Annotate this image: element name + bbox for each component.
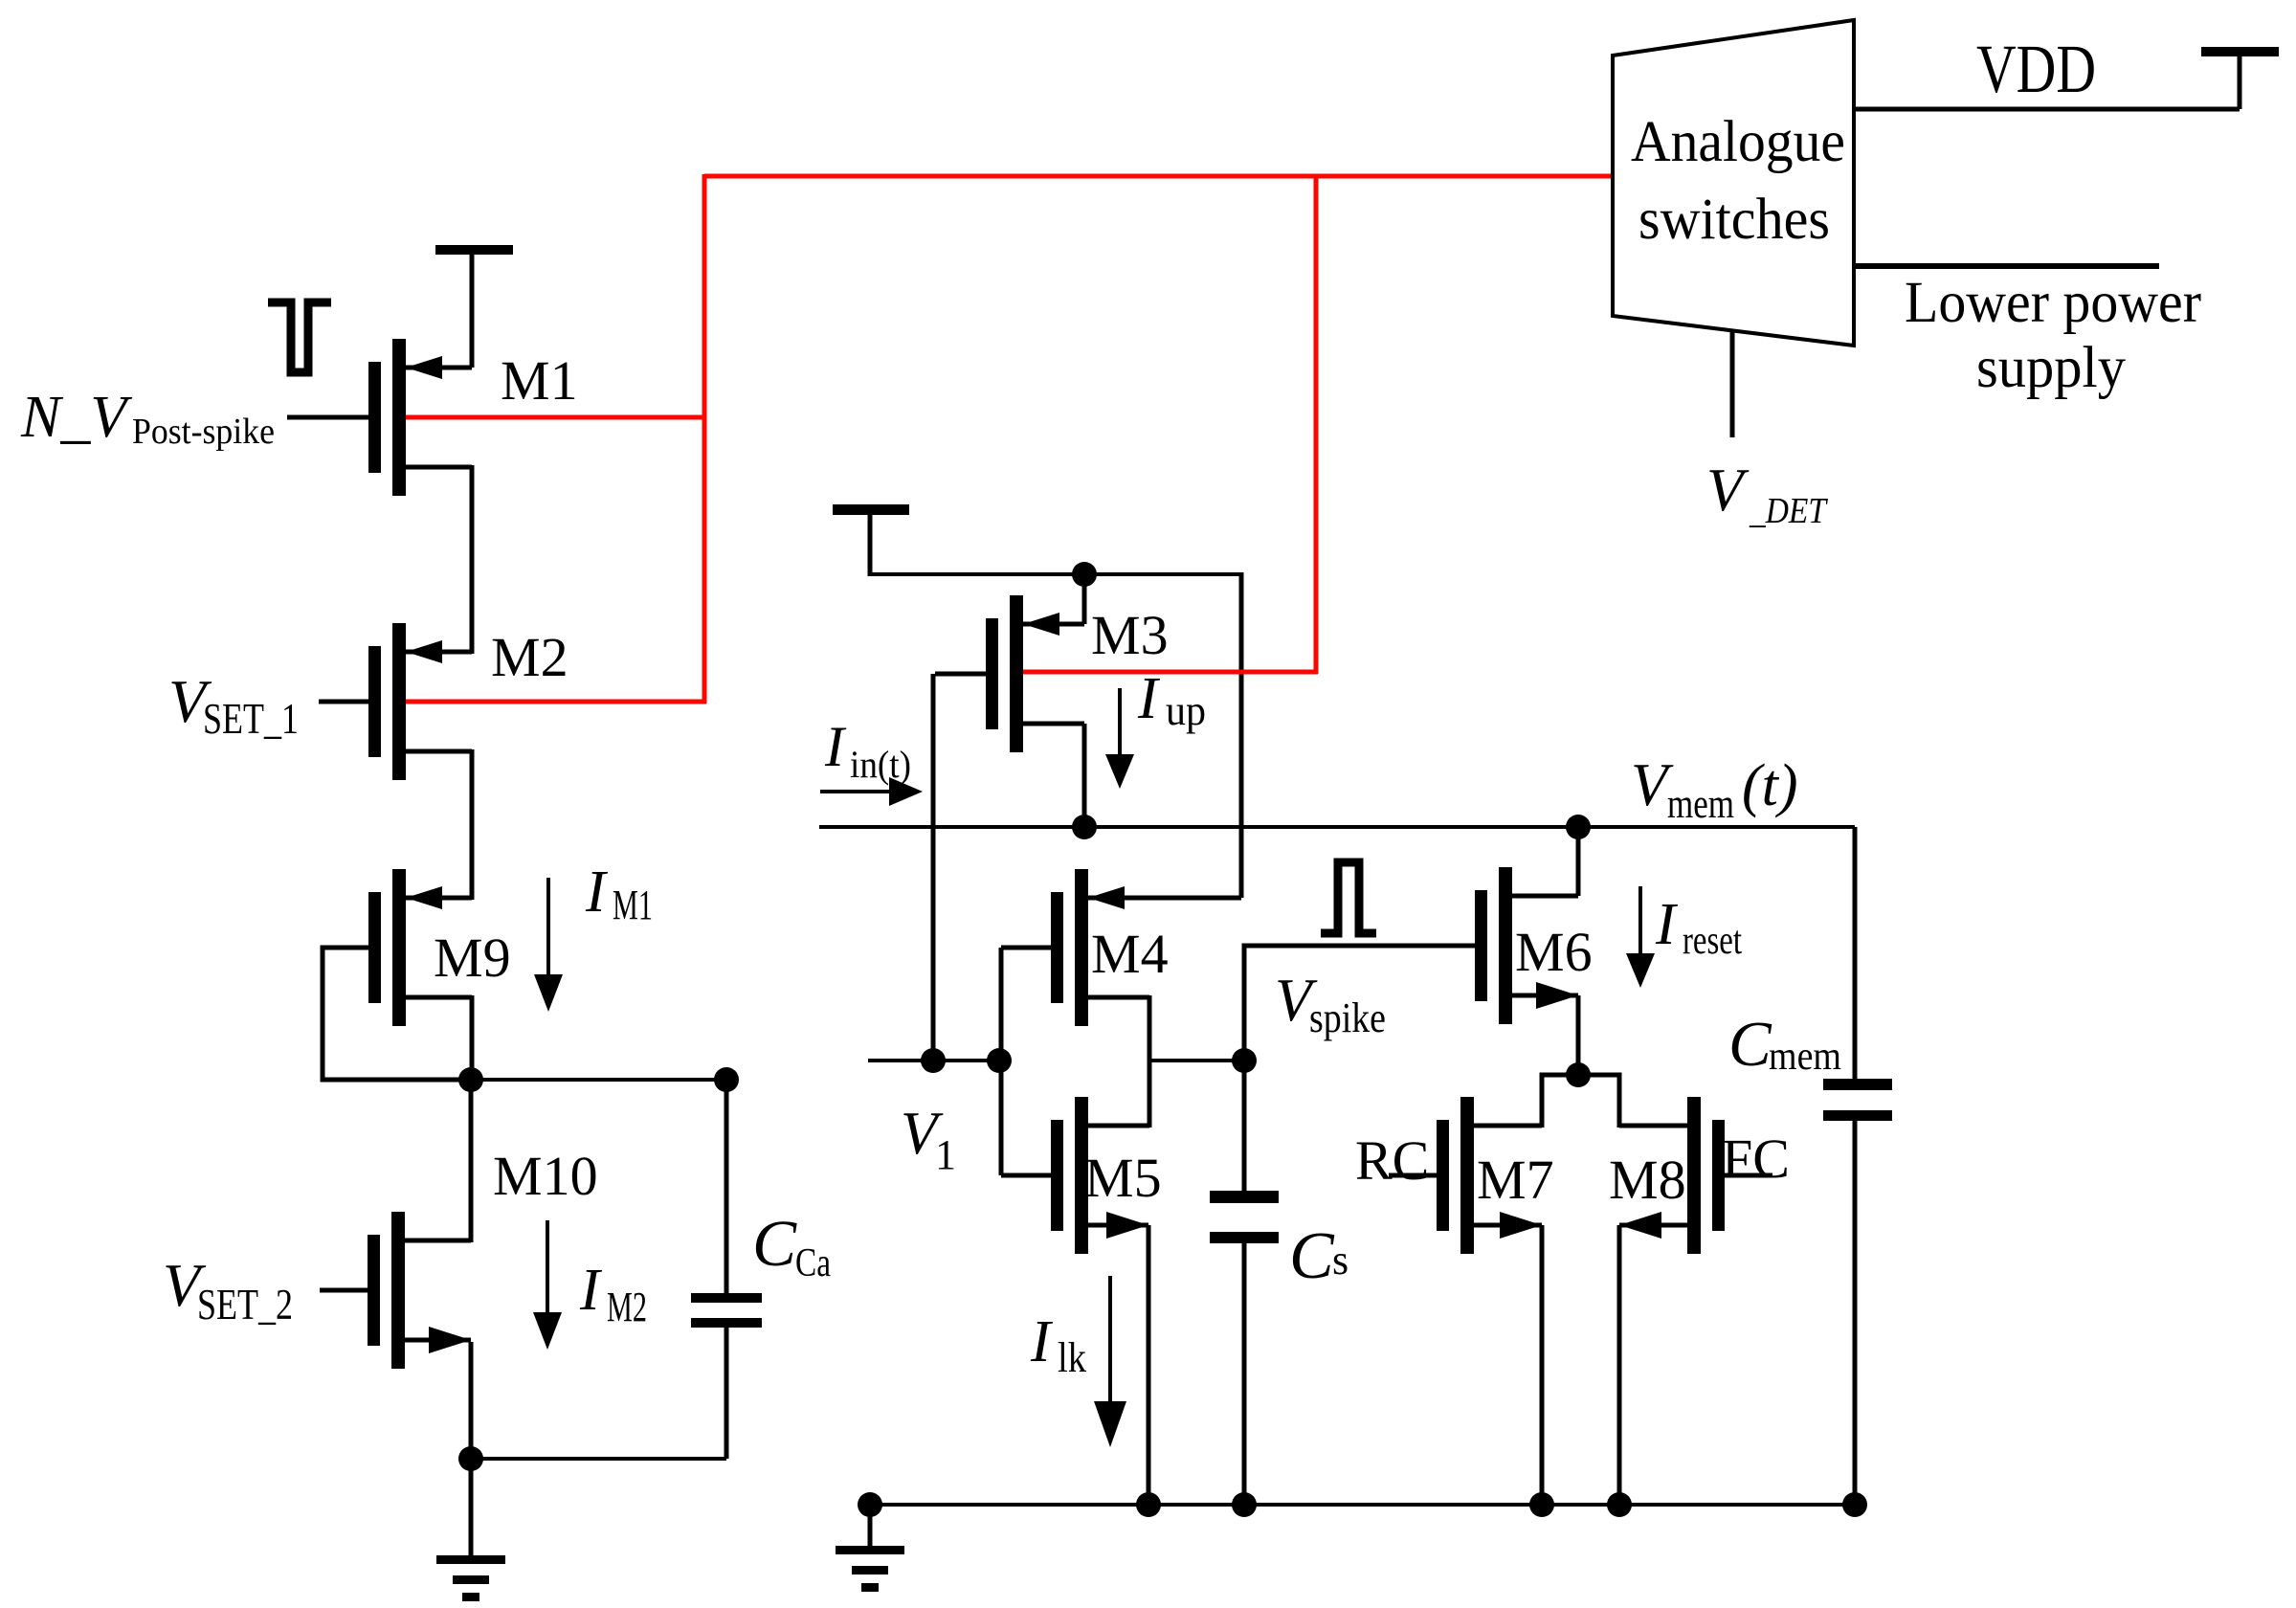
wire V1 line <box>868 1059 999 1062</box>
wire M10 source to ground node <box>469 1342 474 1459</box>
wire M4 source up to supply rail <box>1239 572 1244 898</box>
svg-text:_DET: _DET <box>1749 491 1828 531</box>
svg-text:reset: reset <box>1683 919 1742 963</box>
transistor M10 <box>368 1235 380 1346</box>
node M10 source junction <box>458 1446 483 1471</box>
wire M4/M5 common gate <box>999 948 1004 1175</box>
svg-text:M2: M2 <box>491 626 568 688</box>
capacitor C_Ca <box>724 1080 729 1293</box>
node M8 source on rail <box>1607 1492 1632 1517</box>
wire M6 drain up to V_mem <box>1576 827 1581 896</box>
wire node to M7 drain <box>1542 1075 1578 1128</box>
svg-text:in(t): in(t) <box>850 743 911 786</box>
svg-text:N_V: N_V <box>20 385 132 450</box>
node C_Ca top junction <box>714 1067 739 1092</box>
power supply terminal VDD <box>2238 56 2242 109</box>
capacitor C_s <box>1242 1061 1247 1191</box>
wire M8 source to ground rail <box>1617 1225 1622 1505</box>
svg-text:I: I <box>1137 666 1161 731</box>
transistor M6 <box>1475 890 1487 1001</box>
svg-text:up: up <box>1166 687 1206 734</box>
svg-text:VDD: VDD <box>1976 31 2096 107</box>
svg-text:I: I <box>824 715 847 778</box>
wire M2 drain to M9 source <box>470 749 475 900</box>
wire red net horizontal to analogue switches <box>704 174 1615 179</box>
svg-text:C: C <box>1289 1219 1335 1293</box>
wire red vertical left branch <box>702 174 707 703</box>
input current arrow I_in <box>820 790 893 793</box>
svg-text:M4: M4 <box>1091 923 1169 985</box>
svg-text:SET_2: SET_2 <box>197 1281 293 1329</box>
wire red vertical right branch <box>1314 174 1319 674</box>
svg-text:M8: M8 <box>1609 1149 1686 1211</box>
svg-text:M7: M7 <box>1477 1149 1554 1211</box>
power supply terminal above M1 <box>435 245 513 255</box>
ground left chain <box>469 1459 474 1557</box>
wire node to C_Ca <box>471 1078 726 1082</box>
svg-text:spike: spike <box>1309 994 1386 1041</box>
wire M9 gate diode connection <box>323 948 463 1080</box>
transistor M9 <box>368 892 381 1003</box>
current arrow I_lk <box>1108 1276 1112 1405</box>
wire node to M10 drain <box>469 1080 474 1242</box>
svg-text:RC: RC <box>1355 1129 1429 1192</box>
transistor M7 <box>1437 1120 1449 1231</box>
svg-text:mem: mem <box>1769 1035 1841 1079</box>
node rail left end <box>858 1492 882 1517</box>
node M7 source on rail <box>1529 1492 1554 1517</box>
wire red bulk tap of M1 <box>394 415 706 420</box>
node M5 source on rail <box>1136 1492 1161 1517</box>
current arrow I_reset <box>1638 886 1642 957</box>
node C_mem on rail <box>1842 1492 1867 1517</box>
input pulse symbol at N_V_Post-spike <box>268 302 331 372</box>
wire M3 source up to supply rail <box>1082 574 1087 624</box>
wire M3 drain down to V_mem line <box>1082 724 1087 827</box>
wire M6 source down to M7/M8 node <box>1576 995 1581 1075</box>
svg-text:FC: FC <box>1722 1128 1790 1190</box>
wire M1 drain to M2 source <box>470 465 475 654</box>
wire V_spike to M6 gate <box>1244 946 1475 1061</box>
wire M4 drain to M5 drain <box>1148 995 1152 1128</box>
svg-text:V: V <box>1706 457 1750 524</box>
node spike/C_s junction <box>1232 1048 1257 1073</box>
transistor M2 <box>368 646 381 757</box>
svg-text:switches: switches <box>1638 188 1830 252</box>
svg-text:I: I <box>1655 892 1679 957</box>
svg-text:M5: M5 <box>1084 1147 1162 1209</box>
wire supply rail to M3/M4 sources <box>870 572 1241 576</box>
svg-text:SET_1: SET_1 <box>203 695 299 743</box>
wire M5 source to ground rail <box>1147 1225 1151 1505</box>
svg-text:lk: lk <box>1058 1334 1086 1381</box>
svg-text:mem: mem <box>1667 782 1734 827</box>
capacitor C_mem <box>1853 827 1858 1079</box>
node M9/M10 drain junction <box>458 1067 483 1092</box>
wire V_DET control input <box>1730 330 1735 437</box>
svg-text:I: I <box>1030 1309 1054 1374</box>
svg-text:C: C <box>752 1207 797 1280</box>
svg-text:M9: M9 <box>434 927 511 989</box>
wire node to C_Ca bottom <box>471 1457 726 1461</box>
svg-text:I: I <box>585 860 609 925</box>
ground main rail <box>868 1505 873 1548</box>
svg-text:Analogue: Analogue <box>1631 110 1845 174</box>
wire ground rail <box>870 1503 1855 1507</box>
node C_s on rail <box>1232 1492 1257 1517</box>
svg-text:M2: M2 <box>607 1284 647 1330</box>
transistor M1 <box>368 362 381 473</box>
spike pulse symbol <box>1321 862 1376 933</box>
svg-text:Lower power: Lower power <box>1905 271 2201 335</box>
node M3 source supply junction <box>1072 562 1097 587</box>
svg-text:Ca: Ca <box>795 1241 831 1285</box>
wire V_mem(t) membrane line <box>819 825 1855 829</box>
node V1 M4/M5 gate junction <box>987 1048 1012 1073</box>
svg-text:M3: M3 <box>1091 604 1169 666</box>
node M6 drain on V_mem <box>1566 815 1591 839</box>
transistor M3 <box>986 618 998 729</box>
current arrow I_up <box>1118 688 1122 758</box>
wire inverter output tap to spike node <box>1149 1059 1244 1062</box>
svg-text:I: I <box>579 1258 603 1323</box>
svg-text:M10: M10 <box>493 1145 598 1207</box>
svg-text:M1: M1 <box>501 349 578 412</box>
node M3 drain on V_mem <box>1072 815 1097 839</box>
wire red bulk tap of M3 <box>1013 670 1318 675</box>
svg-text:M1: M1 <box>613 882 653 928</box>
node M6 source junction <box>1566 1062 1591 1087</box>
analogue switches block <box>1613 20 1854 346</box>
wire red bulk tap of M2 <box>394 700 706 704</box>
transistor M4 <box>1051 892 1063 1003</box>
svg-text:s: s <box>1332 1237 1349 1284</box>
svg-text:1: 1 <box>935 1131 956 1178</box>
svg-text:(t): (t) <box>1742 753 1798 818</box>
wire lower power supply output <box>1854 263 2159 269</box>
svg-text:supply: supply <box>1976 336 2126 400</box>
wire M3 gate to V1 node <box>931 674 936 1061</box>
transistor M8 <box>1712 1120 1725 1231</box>
current arrow I_M2 <box>546 1220 549 1316</box>
svg-text:Post-spike: Post-spike <box>132 412 275 452</box>
wire M7 source to ground rail <box>1540 1225 1545 1505</box>
svg-text:M6: M6 <box>1515 921 1593 983</box>
wire node to M8 drain <box>1578 1075 1619 1128</box>
power supply terminal above M3 <box>833 504 909 515</box>
node V1 M3 gate junction <box>921 1048 946 1073</box>
wire VDD output <box>1854 107 2240 112</box>
transistor M5 <box>1051 1120 1063 1231</box>
current arrow I_M1 <box>546 878 550 978</box>
svg-text:C: C <box>1728 1009 1772 1080</box>
wire M9 drain down to node <box>470 995 475 1080</box>
